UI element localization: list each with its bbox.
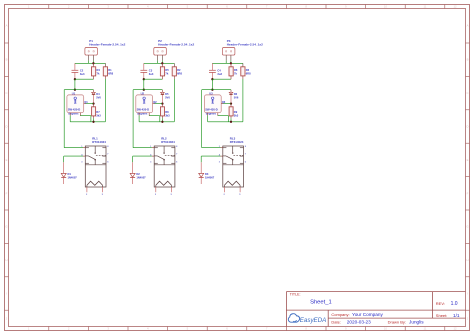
resistor R4 7k <box>92 63 101 79</box>
pins of P3 <box>226 55 231 61</box>
junction <box>230 121 232 123</box>
pins of P1 <box>89 55 94 61</box>
svg-text:H: H <box>466 258 468 262</box>
svg-text:3u3: 3u3 <box>80 72 85 76</box>
sensor bottom pin left <box>138 113 140 122</box>
resistor R2 6R8 <box>172 63 182 79</box>
wire left vertical <box>201 90 203 148</box>
svg-text:D6: D6 <box>234 92 238 96</box>
connector P1 Header-Female-2.54_1x2 <box>85 39 126 55</box>
svg-text:C: C <box>466 91 468 95</box>
svg-text:C4: C4 <box>217 69 221 73</box>
wire main horizontal rail <box>75 62 106 64</box>
resistor R7 3k3 <box>92 104 102 122</box>
svg-text:10: 10 <box>384 327 388 331</box>
svg-text:7k: 7k <box>97 71 100 75</box>
relay RL2 RT314024 <box>154 137 175 188</box>
wire header pins down <box>89 61 94 64</box>
junction <box>230 102 232 104</box>
relay coil pins <box>224 185 242 196</box>
resistor R5 7k <box>160 63 169 79</box>
wire cap to loop top <box>143 79 145 90</box>
svg-text:1N4007: 1N4007 <box>205 176 215 180</box>
svg-text:8: 8 <box>305 5 307 9</box>
svg-text:RT314024: RT314024 <box>161 140 175 144</box>
wire row cap-R bottom <box>212 78 231 80</box>
svg-text:R8: R8 <box>165 110 169 114</box>
svg-text:5: 5 <box>187 327 189 331</box>
junction <box>74 78 76 80</box>
svg-text:2: 2 <box>86 194 88 196</box>
capacitor C4 3u3 <box>209 63 222 79</box>
diode D1 1N4007 <box>61 156 77 184</box>
svg-text:B: B <box>467 58 469 62</box>
junction <box>143 89 145 91</box>
svg-text:9: 9 <box>345 5 347 9</box>
relay pin stubs and numbers <box>150 146 178 164</box>
junction <box>161 102 163 104</box>
wire cap to loop top <box>211 79 213 90</box>
title block <box>286 292 465 327</box>
svg-text:1: 1 <box>28 5 30 9</box>
svg-text:3: 3 <box>219 162 221 164</box>
svg-text:2: 2 <box>155 194 157 196</box>
svg-text:degrees: degrees <box>137 112 148 116</box>
svg-text:7: 7 <box>245 154 247 156</box>
wire loop top <box>133 89 162 91</box>
svg-text:5: 5 <box>187 5 189 9</box>
relay coil <box>224 181 240 185</box>
vibration switch U3 SW-420-D <box>204 92 221 116</box>
svg-text:EasyEDA: EasyEDA <box>300 317 326 324</box>
svg-text:5: 5 <box>239 194 241 196</box>
wire to relay pin 4 <box>133 155 155 157</box>
sensor bottom pin left <box>207 113 209 122</box>
junction <box>230 62 232 64</box>
svg-text:J: J <box>6 317 8 321</box>
svg-text:R3: R3 <box>246 68 250 72</box>
svg-text:5: 5 <box>102 194 104 196</box>
wire left vertical <box>63 90 65 148</box>
wire bottom rail <box>208 121 243 123</box>
svg-text:C3: C3 <box>149 69 153 73</box>
resistor R9 3k3 <box>229 104 239 122</box>
svg-text:Q3: Q3 <box>222 100 226 104</box>
svg-text:A: A <box>6 24 8 28</box>
svg-text:6R8: 6R8 <box>108 71 113 75</box>
relay RL3 RT314024 <box>223 137 244 188</box>
relay coil pins <box>86 185 104 196</box>
diode D2 1N4007 <box>130 156 146 184</box>
svg-text:7: 7 <box>107 154 109 156</box>
sensor right pin wire <box>221 103 231 105</box>
svg-text:G: G <box>466 225 468 229</box>
svg-text:R6: R6 <box>234 68 238 72</box>
svg-text:4: 4 <box>147 5 149 9</box>
resistor R6 7k <box>229 63 238 79</box>
svg-text:D1: D1 <box>68 172 72 176</box>
svg-text:U2: U2 <box>141 92 145 96</box>
svg-text:9: 9 <box>345 327 347 331</box>
svg-text:Header-Female-2.54_1x2: Header-Female-2.54_1x2 <box>227 42 263 46</box>
svg-text:R4: R4 <box>97 68 101 72</box>
resistor R1 6R8 <box>103 63 113 79</box>
svg-text:6R8: 6R8 <box>246 71 251 75</box>
junction <box>211 78 213 80</box>
svg-text:Sheet:: Sheet: <box>436 313 448 318</box>
svg-text:C: C <box>5 91 7 95</box>
wire to relay pin 1 <box>64 147 85 149</box>
svg-text:3k3: 3k3 <box>165 114 170 118</box>
svg-text:3: 3 <box>107 5 109 9</box>
wire to relay pin 1 <box>202 147 223 149</box>
svg-text:7: 7 <box>266 5 268 9</box>
svg-text:7k: 7k <box>165 71 168 75</box>
svg-text:Sheet_1: Sheet_1 <box>310 300 332 306</box>
diode D3 1N4007 <box>199 156 215 184</box>
vibration switch U1 SW-420-D <box>67 92 84 116</box>
svg-text:5V6: 5V6 <box>165 96 170 100</box>
svg-text:2: 2 <box>68 5 70 9</box>
wire bottom rail <box>70 121 105 123</box>
sensor bottom pin right wire jog <box>80 113 91 122</box>
svg-text:10: 10 <box>384 5 388 9</box>
resistor R3 6R8 <box>241 63 251 79</box>
wire left vertical <box>132 90 134 148</box>
junction <box>92 102 94 104</box>
svg-text:REV:: REV: <box>436 301 445 306</box>
svg-text:Header-Female-2.54_1x2: Header-Female-2.54_1x2 <box>158 42 194 46</box>
pins of P2 <box>158 55 163 61</box>
zener diode D4 5V6 <box>92 90 102 104</box>
resistor R8 3k3 <box>161 104 171 122</box>
relay coil <box>156 181 172 185</box>
junction <box>161 62 163 64</box>
svg-text:D4: D4 <box>96 92 100 96</box>
svg-text:6: 6 <box>176 161 178 163</box>
wire right column down <box>242 79 244 122</box>
wire loop top <box>64 89 93 91</box>
wire cap to loop top <box>74 79 76 90</box>
svg-text:Company:: Company: <box>331 312 349 317</box>
svg-text:I: I <box>467 292 468 296</box>
wire loop top <box>202 89 231 91</box>
connector P2 Header-Female-2.54_1x2 <box>154 39 195 55</box>
svg-text:8: 8 <box>176 146 178 148</box>
svg-text:11: 11 <box>424 5 427 9</box>
svg-text:8: 8 <box>245 146 247 148</box>
svg-text:2020-03-23: 2020-03-23 <box>347 320 371 325</box>
relay RL1 RT314024 <box>85 137 106 188</box>
relay pin stubs and numbers <box>81 146 109 164</box>
svg-text:6: 6 <box>226 327 228 331</box>
svg-text:1N4007: 1N4007 <box>68 176 78 180</box>
svg-text:6: 6 <box>245 161 247 163</box>
svg-text:D3: D3 <box>205 172 209 176</box>
svg-text:U3: U3 <box>209 92 213 96</box>
svg-text:R1: R1 <box>108 68 112 72</box>
wire right column down <box>104 79 106 122</box>
wire header pins down <box>226 61 231 64</box>
junction <box>74 89 76 91</box>
svg-text:D2: D2 <box>136 172 140 176</box>
svg-text:F: F <box>6 191 8 195</box>
svg-text:3: 3 <box>107 327 109 331</box>
svg-text:6R8: 6R8 <box>177 71 182 75</box>
wire main horizontal rail <box>212 62 243 64</box>
sensor bottom pin right wire jog <box>149 113 160 122</box>
svg-text:3: 3 <box>150 162 152 164</box>
svg-text:7k: 7k <box>234 71 237 75</box>
zener diode D5 5V6 <box>161 90 171 104</box>
svg-text:SW-420-D: SW-420-D <box>68 108 81 112</box>
connector P3 Header-Female-2.54_1x2 <box>222 39 263 55</box>
svg-text:D: D <box>466 125 468 129</box>
svg-text:4: 4 <box>147 327 149 331</box>
svg-text:SW-420-D: SW-420-D <box>137 108 150 112</box>
svg-text:3: 3 <box>81 162 83 164</box>
svg-text:3u3: 3u3 <box>149 72 154 76</box>
capacitor C3 3u3 <box>140 63 153 79</box>
svg-text:8: 8 <box>305 327 307 331</box>
svg-text:J: J <box>467 317 469 321</box>
sensor bottom pin right wire jog <box>218 113 229 122</box>
svg-text:7: 7 <box>176 154 178 156</box>
capacitor C2 3u3 <box>72 63 85 79</box>
EasyEDA logo <box>288 314 326 324</box>
svg-text:Drawn By:: Drawn By: <box>388 319 406 324</box>
svg-text:G: G <box>5 225 7 229</box>
svg-text:SW-420-D: SW-420-D <box>205 108 218 112</box>
svg-text:RT314024: RT314024 <box>230 140 244 144</box>
svg-text:12: 12 <box>453 327 457 331</box>
svg-text:8: 8 <box>107 146 109 148</box>
svg-text:6: 6 <box>226 5 228 9</box>
relay coil <box>87 181 103 185</box>
sensor bottom pin left <box>69 113 71 122</box>
svg-text:F: F <box>467 191 469 195</box>
wire right column down <box>173 79 175 122</box>
svg-text:11: 11 <box>424 327 427 331</box>
junction <box>211 89 213 91</box>
svg-text:U1: U1 <box>72 92 76 96</box>
svg-text:R9: R9 <box>234 110 238 114</box>
svg-text:E: E <box>6 158 8 162</box>
relay pin stubs and numbers <box>219 146 247 164</box>
svg-text:1N4007: 1N4007 <box>136 176 146 180</box>
wire row cap-R bottom <box>75 78 94 80</box>
svg-text:Header-Female-2.54_1x2: Header-Female-2.54_1x2 <box>89 42 125 46</box>
svg-text:6: 6 <box>107 161 109 163</box>
svg-text:5: 5 <box>171 194 173 196</box>
svg-text:R7: R7 <box>96 110 100 114</box>
svg-text:H: H <box>5 258 7 262</box>
svg-text:E: E <box>467 158 469 162</box>
svg-text:degrees: degrees <box>206 112 217 116</box>
junction <box>92 121 94 123</box>
wire header pins down <box>158 61 163 64</box>
svg-text:7: 7 <box>266 327 268 331</box>
svg-text:I: I <box>6 292 7 296</box>
junction <box>92 62 94 64</box>
junction <box>143 78 145 80</box>
svg-text:B: B <box>6 58 8 62</box>
wire bottom rail <box>139 121 174 123</box>
svg-text:RT314024: RT314024 <box>92 140 106 144</box>
sensor right pin wire <box>153 103 163 105</box>
svg-text:degrees: degrees <box>68 112 79 116</box>
zener diode D6 5V6 <box>229 90 239 104</box>
svg-text:D: D <box>5 125 7 129</box>
svg-text:Q1: Q1 <box>84 100 88 104</box>
svg-text:Junglis: Junglis <box>409 320 424 325</box>
svg-text:3k3: 3k3 <box>96 114 101 118</box>
svg-text:Q2: Q2 <box>153 100 157 104</box>
wire to relay pin 1 <box>133 147 154 149</box>
svg-text:2: 2 <box>224 194 226 196</box>
svg-text:1.0: 1.0 <box>451 301 458 307</box>
junction <box>161 121 163 123</box>
relay coil pins <box>155 185 173 196</box>
svg-text:3k3: 3k3 <box>234 114 239 118</box>
sensor right pin wire <box>84 103 94 105</box>
svg-text:C2: C2 <box>80 69 84 73</box>
wire row cap-R bottom <box>144 78 163 80</box>
wire main horizontal rail <box>144 62 175 64</box>
svg-text:2: 2 <box>68 327 70 331</box>
svg-text:R2: R2 <box>177 68 181 72</box>
wire to relay pin 4 <box>201 155 223 157</box>
wire to relay pin 4 <box>64 155 86 157</box>
svg-text:D5: D5 <box>165 92 169 96</box>
svg-text:Your Company: Your Company <box>352 312 383 317</box>
svg-text:3u3: 3u3 <box>217 72 222 76</box>
svg-text:TITLE:: TITLE: <box>290 293 301 297</box>
svg-text:A: A <box>467 24 469 28</box>
svg-text:5V6: 5V6 <box>96 96 101 100</box>
svg-text:Date:: Date: <box>331 319 341 324</box>
svg-text:1: 1 <box>28 327 30 331</box>
svg-text:1/1: 1/1 <box>453 313 460 318</box>
svg-text:12: 12 <box>453 5 457 9</box>
svg-text:R5: R5 <box>165 68 169 72</box>
vibration switch U2 SW-420-D <box>136 92 153 116</box>
svg-text:5V6: 5V6 <box>234 96 239 100</box>
